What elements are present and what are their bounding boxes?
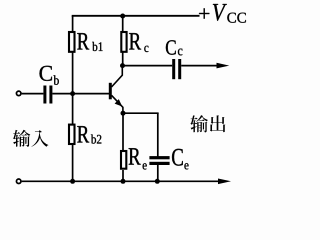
label 输入 char 入 bbox=[31, 130, 48, 147]
resistor Rc bbox=[121, 32, 126, 52]
node: emitter junction dot bbox=[121, 111, 126, 116]
terminal: input upper circle bbox=[16, 91, 21, 96]
resistor Rb1 bbox=[69, 32, 75, 52]
wire: collector node to Cc bbox=[123, 65, 173, 67]
resistor Rb2 bbox=[69, 125, 75, 144]
transistor Q emitter stroke bbox=[112, 95, 123, 113]
wire: Rb2 bottom to ground rail bbox=[72, 145, 74, 181]
node: base junction dot bbox=[70, 91, 75, 96]
wire: emitter node right to Ce branch corner bbox=[123, 112, 159, 114]
wire: rail to Rc bbox=[122, 16, 124, 33]
arrow: output arrowhead bbox=[217, 63, 230, 69]
transistor Q base bar bbox=[109, 83, 112, 100]
label 输出 char 输 bbox=[190, 115, 208, 132]
terminal: input lower circle bbox=[16, 179, 21, 184]
node: ground rail dot at Ce bbox=[155, 179, 160, 184]
wire: Rb1 bottom to Rb2 top through base node bbox=[72, 52, 74, 125]
node: ground rail dot at Rb2 bbox=[70, 179, 75, 184]
label 输入 char 输 bbox=[13, 130, 30, 147]
capacitor Cb bbox=[43, 86, 52, 104]
transistor Q emitter arrowhead bbox=[115, 99, 123, 106]
label Rb1 bbox=[77, 33, 102, 51]
wire: input terminal to Cb bbox=[22, 93, 44, 95]
capacitor Ce bbox=[149, 156, 169, 165]
resistor Re bbox=[121, 151, 126, 169]
label Cc bbox=[166, 40, 183, 55]
wire: Cb to transistor base through base node bbox=[52, 93, 109, 95]
wire: Ce branch vertical down to Ce top plate bbox=[157, 113, 159, 157]
node: junction dot on Vcc rail at Rc branch bbox=[120, 14, 125, 19]
wire: ground rail bbox=[22, 180, 219, 182]
node: collector junction dot bbox=[120, 63, 125, 68]
transistor Q collector stroke bbox=[112, 66, 123, 87]
wire: emitter node down to Re bbox=[122, 113, 124, 151]
wire: top supply rail bbox=[72, 15, 200, 17]
label +Vcc bbox=[199, 4, 246, 23]
label Rb2 bbox=[77, 126, 101, 143]
wire: Cc to output arrow bbox=[181, 65, 218, 67]
wire: left branch vertical from rail to Rb1 bbox=[72, 16, 74, 33]
label Re bbox=[129, 148, 147, 169]
wire: Re bottom to ground rail bbox=[122, 170, 124, 181]
wire: Rc bottom to collector node bbox=[122, 52, 124, 66]
label Cb bbox=[39, 66, 58, 85]
capacitor Cc bbox=[172, 59, 181, 79]
label Ce bbox=[172, 149, 188, 170]
label 输出 char 出 bbox=[210, 115, 226, 132]
wire: Ce bottom plate to ground rail bbox=[157, 165, 159, 182]
arrow: ground rail arrowhead bbox=[218, 179, 231, 185]
label Rc bbox=[129, 33, 148, 52]
node: ground rail dot at Re bbox=[121, 179, 126, 184]
